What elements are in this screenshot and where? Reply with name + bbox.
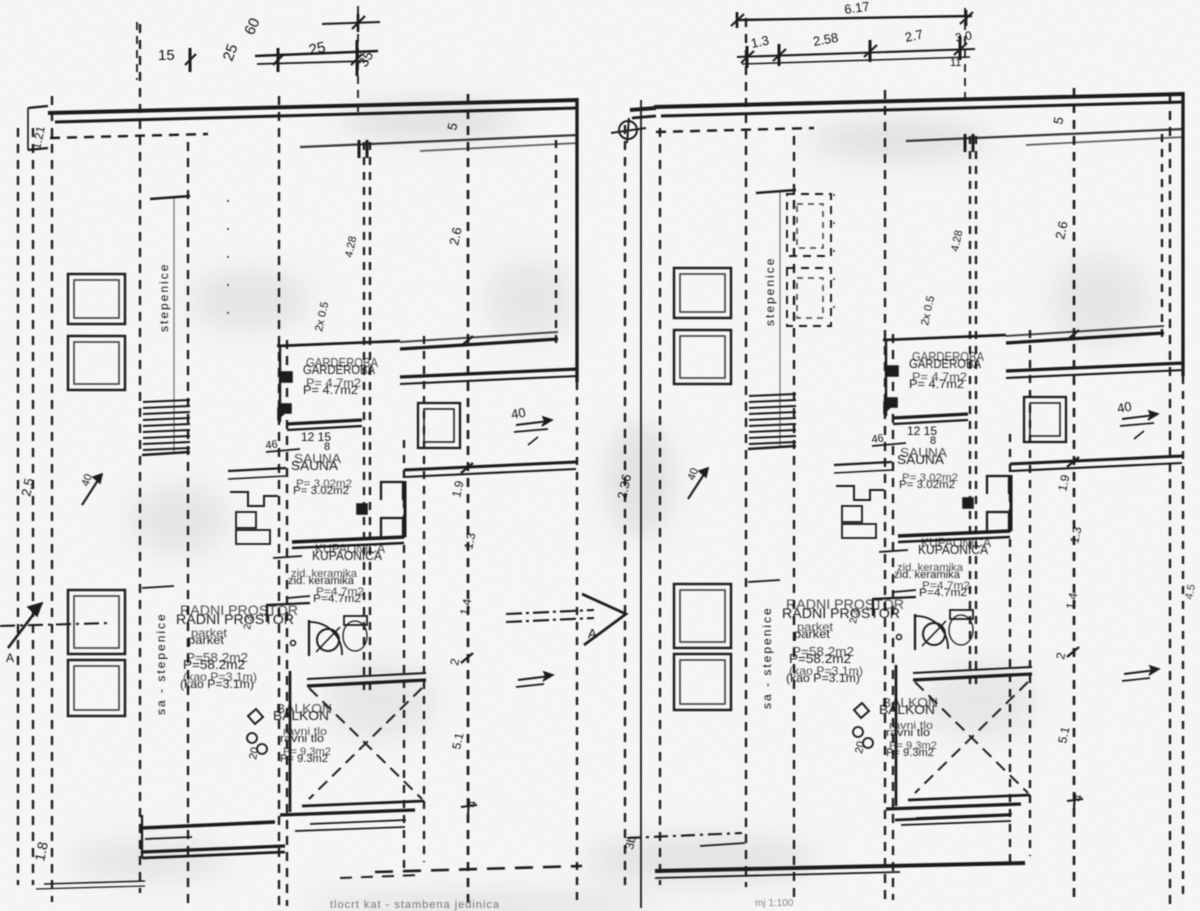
wire left dashed axis x188 (187, 142, 189, 906)
node right window W2 (674, 330, 731, 384)
wire right dashed axis x577 lower (1182, 376, 1184, 900)
wire left garderoba left wall (279, 345, 281, 422)
wire right dashed axis x370 (975, 136, 977, 686)
svg-text:P= 3.02m2: P= 3.02m2 (293, 485, 349, 497)
dim chain right top (737, 16, 972, 20)
wire right dotted axis x228 (833, 194, 835, 324)
node right door triangle (884, 402, 896, 413)
svg-text:46: 46 (871, 432, 885, 446)
wire right sauna bench top (834, 462, 892, 465)
wire right stair lower mark (748, 580, 780, 582)
svg-text:A: A (588, 626, 597, 641)
wire right sauna bottom wall (898, 531, 1010, 536)
wire left dashed axis x370 (369, 142, 371, 692)
wire left dashed axis x287 (286, 340, 288, 906)
datum circle mark between plans (619, 121, 637, 139)
wire right bath small wall (879, 550, 908, 552)
node left door swing arc (309, 622, 342, 655)
node left sauna bench lower (236, 530, 270, 544)
wire right stair strip top edge (756, 190, 796, 193)
wire left sauna bottom wall (292, 537, 404, 542)
node left window W3 (68, 590, 125, 654)
node right sauna bench steps (836, 486, 884, 500)
wire right dashed axis x468 (1073, 88, 1076, 900)
node right door jamb upper (987, 476, 1009, 494)
node right door jamb lower (987, 512, 1009, 531)
node right wall tick a (964, 134, 967, 152)
wire left dashed axis x556 (555, 140, 557, 348)
wire right dashed axis x364 (969, 136, 971, 686)
node left washbasin (317, 629, 339, 651)
node left door jamb upper (381, 482, 403, 500)
svg-text:(kao P=3.1m): (kao P=3.1m) (786, 671, 860, 685)
wire left garderoba bottom wall (287, 420, 362, 424)
svg-text:A: A (6, 651, 14, 665)
wire right dashed axis x279 (884, 90, 886, 900)
wire left balcony bottom outer (280, 810, 415, 815)
wire left top dashed wall line (50, 134, 208, 138)
node right small circle mark 2 (863, 738, 873, 748)
section line A left (0, 623, 112, 626)
svg-text:P= 3.02m2: P= 3.02m2 (899, 479, 955, 491)
wire left dashed axis x140 (139, 24, 141, 893)
svg-text:3.0: 3.0 (954, 28, 973, 45)
wire left stair centre line (173, 196, 175, 452)
node left dim tick bottom (461, 805, 477, 807)
wire left bath small wall (273, 556, 302, 558)
wire right dashed axis x556 (1161, 134, 1163, 342)
svg-text:P=4.7m2: P=4.7m2 (313, 593, 361, 605)
svg-text:P= 9.3m2: P= 9.3m2 (280, 753, 328, 765)
node right drain point (897, 635, 902, 640)
wire right corridor wall upper (1006, 333, 1164, 343)
party wall solid right (640, 100, 642, 908)
wire left dashed axis x577 lower (576, 382, 578, 906)
wire right stair tread 1 (749, 394, 796, 396)
left boundary dashed line A (17, 128, 19, 885)
svg-text:mj 1:100: mj 1:100 (755, 898, 794, 909)
wire right balcony bottom inner (908, 795, 1030, 800)
wire right jamb wall (1010, 475, 1013, 531)
node left shower box outer (418, 403, 460, 448)
wire left dashed axis x404 (403, 440, 405, 868)
node left dim tick balcony wall (461, 653, 473, 663)
wire left dotted axis x228 (227, 200, 229, 330)
node right wall tick b (972, 134, 975, 152)
node left sauna wall block (357, 504, 367, 514)
svg-text:20: 20 (853, 740, 867, 754)
wire left stair lower mark (142, 586, 174, 588)
svg-text:ravni tlo: ravni tlo (886, 727, 930, 739)
left boundary dashed line C (51, 96, 53, 902)
left boundary dashed line B (32, 128, 34, 885)
wire right top wall line 3 (906, 129, 1184, 141)
node left exit arrow line (518, 676, 550, 680)
node right diamond mark (854, 703, 869, 718)
wire right dashed axis x424 (1029, 330, 1031, 856)
wire left stair tread 1 (143, 400, 190, 402)
svg-text:GARDEROBA: GARDEROBA (909, 356, 981, 371)
svg-text:20: 20 (247, 746, 261, 760)
node right slope arrow 40 (688, 468, 708, 499)
wire left top wall line 4 (420, 143, 578, 151)
wire right dashed axis x404 (1009, 434, 1011, 862)
wire left dashed axis x279 (278, 96, 280, 906)
node right dim tick bottom (1067, 799, 1083, 801)
wire right hall wall upper line (1010, 456, 1182, 464)
wire right balcony diagonal 1 (915, 682, 1028, 793)
wire left corridor wall lower band (400, 369, 578, 377)
wire right balcony bottom outer (886, 804, 1021, 809)
wire right stair centre line (779, 190, 781, 446)
svg-text:sa - stepenice: sa - stepenice (154, 612, 168, 715)
node right dim tick upper wall (1067, 330, 1079, 340)
svg-text:BALKON: BALKON (879, 702, 935, 717)
wire right dim row line (872, 443, 906, 446)
node right toilet (949, 615, 973, 645)
wire right dashed axis x287 (892, 334, 894, 900)
wire left bath wall ledge (266, 603, 310, 605)
wire left balcony diagonal 2 (309, 688, 422, 799)
node right door swing arc (915, 616, 948, 649)
node right washbasin (923, 623, 945, 645)
node left sauna bench steps (230, 492, 278, 506)
node left wall tick b (366, 140, 369, 158)
svg-text:tlocrt kat - stambena jedi: tlocrt kat - stambena jedinica (330, 899, 500, 911)
svg-text:11: 11 (950, 57, 961, 69)
wire right garderoba top wall (883, 335, 1006, 340)
node left door triangle (278, 408, 290, 419)
node right shower box outer (1024, 397, 1066, 442)
svg-text:P=4.7m2: P=4.7m2 (919, 587, 967, 599)
node right small circle mark 1 (853, 727, 863, 737)
node left dim tick upper wall (461, 336, 473, 346)
wire right right wall solid (1181, 92, 1184, 376)
party wall dashed lines right (624, 125, 626, 885)
wire left stair strip bottom edge (142, 452, 190, 455)
wire left balcony bottom inner (302, 801, 424, 806)
svg-text:stepenice: stepenice (763, 257, 777, 326)
node right window W1 (674, 268, 731, 318)
left corner bracket top (28, 106, 48, 108)
node right sauna bench lower (842, 524, 876, 538)
node left door jamb lower (381, 518, 403, 537)
svg-text:40: 40 (1116, 399, 1133, 416)
wire right dashed axis x188 (793, 136, 795, 900)
node left shower box inner (424, 409, 454, 442)
wire right top wall line 4 (1026, 137, 1184, 145)
node right wall hatch block 2 (885, 398, 897, 407)
node left arrowhead 40 (542, 417, 552, 426)
dim chain left top (136, 22, 138, 80)
node left exit arrowhead (543, 672, 553, 681)
svg-text:GARDEROBA: GARDEROBA (303, 362, 375, 377)
svg-text:P= 4.7m2: P= 4.7m2 (909, 377, 964, 391)
svg-text:RADNI PROSTOR: RADNI PROSTOR (782, 605, 900, 621)
wire right balcony diagonal 2 (915, 682, 1028, 793)
wire right bath wall ledge (872, 597, 916, 599)
node right shower box inner (1030, 403, 1060, 436)
wire left top wall line 2 (55, 108, 578, 122)
node left sauna stove (236, 512, 256, 528)
node section arrow left (8, 603, 42, 648)
wire right top wall line 1 (654, 94, 1184, 107)
node left window W4 (68, 660, 125, 716)
node left wall tick a (358, 140, 361, 158)
svg-text:40: 40 (510, 405, 527, 422)
node left small circle mark 2 (257, 744, 267, 754)
node right dim tick mid wall (1067, 457, 1079, 467)
node right arrowhead 40 (1148, 411, 1158, 420)
node right exit arrowhead (1149, 666, 1159, 675)
node left slope arrow 40 (82, 474, 102, 505)
node left drain point (291, 641, 296, 646)
node left door leaf (308, 620, 310, 656)
svg-text:sa - stepenice: sa - stepenice (760, 606, 774, 709)
wire left balcony left wall (289, 671, 292, 812)
node right exit arrow line (1124, 670, 1156, 674)
wire left right wall solid (575, 98, 578, 382)
bottom wall right long (655, 863, 1025, 871)
node left wall hatch block 2 (279, 404, 291, 413)
node left window W2 (68, 336, 125, 390)
svg-text:P= 9.3m2: P= 9.3m2 (886, 747, 934, 759)
node right wall hatch block 1 (886, 366, 898, 376)
bottom dash-dot right (627, 833, 742, 838)
svg-text:SAUNA: SAUNA (291, 458, 338, 473)
svg-text:46: 46 (265, 438, 279, 452)
node left window W1 (68, 274, 125, 324)
right top wall extension (630, 108, 656, 110)
wire left balcony diagonal 1 (309, 688, 422, 799)
svg-text:BALKON: BALKON (273, 708, 329, 723)
bottom wall left block (142, 822, 275, 828)
wire left stair strip top edge (150, 196, 190, 199)
node left dim tick mid wall (461, 463, 473, 473)
wire left dashed axis x468 (467, 94, 470, 906)
node right window W3 (674, 584, 731, 648)
node right sauna stove (842, 506, 862, 522)
svg-text:ravni tlo: ravni tlo (280, 733, 324, 745)
node right door leaf (914, 614, 916, 650)
wire left sauna bench top (228, 468, 286, 471)
wire right stair strip bottom edge (748, 446, 796, 449)
wire left dim row line (266, 449, 300, 452)
svg-text:25: 25 (307, 39, 327, 59)
node right dim tick balcony wall (1067, 647, 1079, 657)
section line A middle (506, 610, 594, 614)
wire left top wall line 1 (48, 100, 578, 113)
wire right garderoba bottom wall (893, 414, 968, 418)
wire left jamb wall (404, 481, 407, 537)
wire left dashed axis x364 (363, 142, 365, 692)
node left toilet (343, 621, 367, 651)
node right sauna wall block (963, 498, 973, 508)
wire right balcony top wall (913, 674, 1032, 680)
wire right corridor wall lower band (1006, 363, 1184, 371)
dashed cupboards right (787, 194, 831, 256)
svg-text:RADNI PROSTOR: RADNI PROSTOR (176, 611, 294, 627)
svg-text:SAUNA: SAUNA (897, 452, 944, 467)
wire left hall wall upper line (404, 462, 576, 470)
node left wall hatch block 1 (280, 372, 292, 382)
svg-text:15: 15 (158, 47, 175, 64)
wire left corridor wall upper (400, 339, 558, 349)
bottom dashed line left (375, 866, 582, 872)
svg-text:(kao P=3.1m): (kao P=3.1m) (180, 677, 254, 691)
node right window W4 (674, 654, 731, 710)
wire left garderoba top wall (277, 341, 400, 346)
wire left dashed axis x424 (423, 336, 425, 862)
svg-text:stepenice: stepenice (157, 263, 171, 332)
svg-text:parket: parket (794, 627, 831, 641)
wire right dashed axis x140 (745, 18, 747, 887)
wire right balcony left wall (895, 665, 898, 806)
wire left top wall line 3 (300, 135, 578, 147)
node left small circle mark 1 (247, 733, 257, 743)
node left diamond mark (248, 709, 263, 724)
wire left balcony top wall (307, 680, 426, 686)
svg-text:parket: parket (188, 633, 225, 647)
node section triangle A (582, 594, 626, 645)
wire right top wall line 2 (661, 102, 1184, 116)
svg-text:KUPAONICA: KUPAONICA (312, 548, 382, 563)
svg-text:P= 4.7m2: P= 4.7m2 (303, 383, 358, 397)
right outer dashed axes (1169, 95, 1171, 905)
wire right top dashed wall line (656, 128, 814, 132)
svg-text:KUPAONICA: KUPAONICA (918, 542, 988, 557)
wire right garderoba left wall (885, 339, 887, 416)
